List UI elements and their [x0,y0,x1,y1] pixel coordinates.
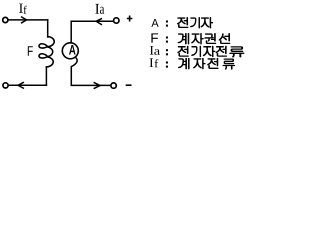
arrow field return left [18,82,24,88]
label topIa_I (I) [95,4,99,14]
line1 jeon-gi-ja [177,17,188,27]
label Fcoil (F) [28,46,33,55]
label topIf_I (I) [19,4,23,13]
minus sign [126,84,132,86]
wire armature top drop and top rail [71,21,113,42]
label legIf_f (f) [155,59,159,67]
label legF (F) [151,33,158,42]
label legIa_a (a) [154,49,160,55]
legend colons [166,21,168,68]
terminal field top-left [3,17,8,22]
wire field bottom rail [9,84,46,86]
label topIa_a (a) [100,7,104,14]
label legIf_I (I) [150,58,154,67]
wire armature bottom hook drop and bottom rail [71,58,110,86]
label legA (A) [151,19,158,27]
label Aarm (A) [69,45,76,55]
wire field top drop [47,20,49,37]
terminal minus [111,83,116,88]
arrow If right [21,17,27,24]
label topIf_f (f) [24,6,27,14]
terminal plus [114,18,119,23]
armature circle A [62,43,78,59]
wire field top rail [9,19,48,21]
line2 gye-ja-gwon-seon [178,33,189,44]
line3 jeon-gi-ja-jeon-ryu [178,46,189,56]
coil F field winding [39,37,54,67]
line4 gye-ja-jeon-ryu [178,58,189,69]
wire coil bottom drop [45,67,47,85]
arrow armature out right [94,82,100,88]
plus sign [127,16,133,22]
arrow Ia left [96,18,102,25]
legend korean [177,17,244,69]
terminal field bottom-left [3,83,8,88]
label legIa_I (I) [150,46,154,55]
